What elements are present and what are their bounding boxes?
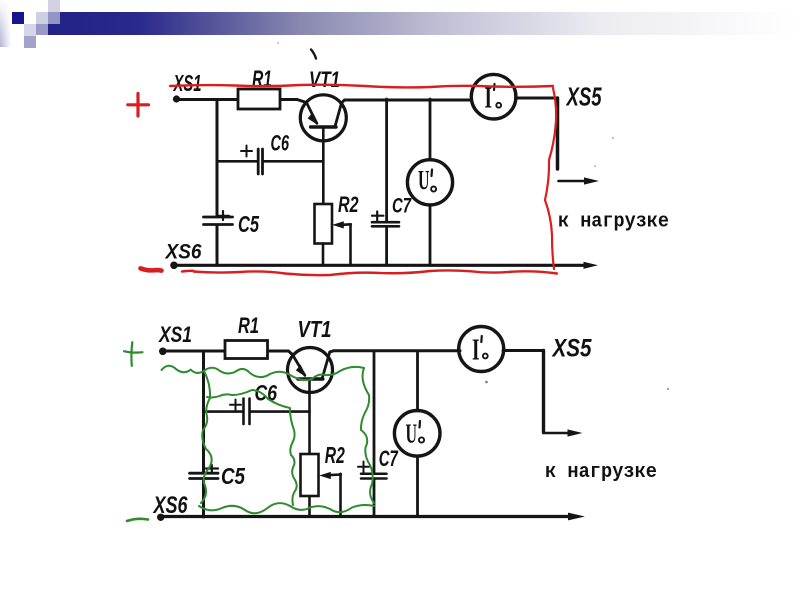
label I'o inside ammeter (top) [485, 79, 493, 114]
wiper arrow of R2 (top) [332, 221, 351, 228]
wire: bottom bus (bottom circuit) [161, 513, 586, 521]
red minus sign [141, 268, 162, 270]
label R1 (top) [252, 66, 272, 93]
wire: left branch vertical (top) [216, 100, 219, 266]
resistor R1 (bottom) [225, 341, 268, 359]
wire: wiper drop to bottom bus (top) [349, 224, 352, 265]
label I'o inside ammeter (bottom) [472, 332, 480, 367]
wire: output arrow to load (top circuit) [559, 177, 600, 184]
wire: C7 branch upper (top) [385, 99, 388, 221]
wire: base lead down from VT1 (bottom) [308, 379, 311, 455]
wire: top bus middle segment [342, 100, 472, 103]
label R2 (top) [338, 192, 359, 217]
label C7 (bottom) [379, 446, 399, 471]
paper specks [277, 42, 669, 390]
wire: top bus right segment to corner [516, 97, 558, 100]
green scribble bottom run [199, 503, 374, 513]
label XS1 (top) [172, 70, 201, 96]
label C5 (bottom) [221, 463, 246, 489]
svg-text:I: I [472, 332, 480, 367]
svg-text:C5: C5 [238, 211, 260, 237]
label к нагрузке (bottom) [545, 461, 657, 484]
label VT1 (bottom) [298, 316, 332, 342]
svg-text:XS5: XS5 [565, 82, 602, 112]
polarity + of C6 (bottom) [230, 400, 241, 411]
red plus sign [128, 94, 149, 117]
svg-text:XS5: XS5 [551, 335, 593, 363]
resistor R1 (top) [238, 89, 280, 109]
green plus sign [124, 342, 142, 366]
svg-text:R2: R2 [325, 442, 345, 468]
voltmeter U (bottom) [394, 411, 440, 457]
wire: voltmeter branch lower (bottom) [416, 456, 419, 517]
ammeter I (top) [471, 74, 516, 119]
svg-text:к нагрузке: к нагрузке [545, 461, 657, 484]
svg-text:XS6: XS6 [165, 241, 202, 264]
label XS6 (top) [165, 241, 202, 264]
red line below bottom bus [182, 270, 557, 275]
label к нагрузке (top) [558, 211, 669, 234]
label XS5 (bottom) [551, 335, 593, 363]
capacitor C7 (bottom) [361, 474, 387, 479]
svg-text:XS6: XS6 [152, 492, 188, 519]
wire: C6 link horizontal (top) [217, 160, 323, 163]
label XS6 (bottom) [152, 492, 188, 519]
label C6 (bottom) [255, 381, 278, 406]
wire: voltmeter branch lower (top) [429, 205, 432, 265]
label XS1 (bottom) [157, 322, 192, 347]
label C6 (top) [271, 131, 290, 156]
capacitor C7 (top) [372, 222, 399, 226]
svg-text:C7: C7 [392, 195, 412, 218]
decorative slide banner [0, 0, 13, 47]
label U'o inside voltmeter (bottom) [406, 418, 418, 448]
wire: top bus left segment (bottom circuit) [162, 351, 293, 355]
transistor VT1 (top) [300, 95, 346, 141]
capacitor C6 (bottom) [244, 399, 250, 425]
wire: wiper drop to bottom bus (bottom) [339, 474, 342, 517]
polarity + of C6 (top) [241, 146, 252, 157]
wire: output arrow to load (bottom circuit) [544, 429, 583, 436]
polarity + of C7 (bottom) [358, 462, 369, 473]
stray pen tick above VT1 [311, 50, 316, 59]
resistor R2 rheostat (top) [315, 204, 333, 244]
polarity + of C7 (top) [372, 212, 383, 221]
capacitor C5 (bottom) [190, 473, 218, 478]
polarity + of C5 (bottom) [206, 465, 218, 472]
wire: XS5 down lead (top circuit) [556, 98, 560, 169]
red line right side vertical [545, 88, 556, 269]
resistor R2 rheostat (bottom) [301, 454, 319, 496]
svg-text:U: U [418, 165, 430, 195]
svg-text:C5: C5 [221, 463, 246, 489]
terminal XS6 (bottom circuit) [157, 514, 164, 521]
wire: C7 branch upper (bottom) [373, 351, 376, 473]
ammeter I (bottom) [459, 327, 504, 372]
svg-text:R1: R1 [252, 66, 272, 93]
terminal XS1 (top circuit) [173, 95, 180, 102]
wire: top bus right segment (bottom circuit) [503, 349, 544, 352]
wire: top bus left segment [177, 100, 307, 103]
voltmeter U (top) [407, 160, 452, 205]
wire: R2 bottom lead (bottom) [308, 496, 311, 517]
polarity + of C5 (top) [218, 211, 229, 220]
wire: R2 bottom lead (top) [322, 244, 325, 266]
wire: bottom bus (top circuit) [174, 262, 598, 269]
wire: voltmeter branch upper (bottom) [416, 351, 419, 411]
svg-text:R1: R1 [238, 313, 259, 338]
wire: C7 branch lower (bottom) [373, 480, 376, 517]
wire: base lead down from VT1 (top) [322, 127, 325, 204]
wire: C7 branch lower (top) [385, 228, 388, 265]
wire: top bus middle segment (bottom circuit) [330, 351, 460, 352]
red line above top bus [170, 85, 553, 88]
svg-text:VT1: VT1 [298, 316, 332, 342]
wire: C6 link horizontal (bottom) [204, 410, 310, 413]
terminal XS6 (top circuit) [170, 262, 178, 270]
wiper arrow of R2 (bottom) [319, 472, 341, 479]
label C7 (top) [392, 195, 412, 218]
svg-text:к нагрузке: к нагрузке [558, 211, 669, 234]
label R2 (bottom) [325, 442, 345, 468]
green scribble top run [162, 366, 365, 380]
transistor VT1 (bottom) [288, 348, 333, 393]
green scribble middle descent [290, 409, 297, 505]
svg-text:VT1: VT1 [309, 67, 340, 92]
green minus sign [127, 519, 148, 521]
wire: voltmeter branch upper (top) [429, 99, 432, 160]
green scribble C6 divider [207, 390, 290, 408]
label C5 (top) [238, 211, 260, 237]
svg-text:C7: C7 [379, 446, 399, 471]
green scribble left ascent [201, 371, 212, 503]
green scribble right descent [361, 368, 374, 503]
capacitor C5 (top) [204, 217, 233, 225]
capacitor C6 (top) [258, 149, 262, 174]
label R1 (bottom) [238, 313, 259, 338]
wire: left branch vertical (bottom) [202, 351, 205, 517]
wire: XS5 down lead (bottom circuit) [542, 351, 545, 433]
svg-text:C6: C6 [271, 131, 290, 156]
svg-text:XS1: XS1 [172, 70, 201, 96]
svg-text:R2: R2 [338, 192, 359, 217]
svg-text:XS1: XS1 [157, 322, 192, 347]
label XS5 (top) [565, 82, 602, 112]
svg-text:U: U [406, 418, 418, 448]
terminal XS1 (bottom circuit) [159, 348, 167, 356]
label VT1 (top) [309, 67, 340, 92]
svg-text:I: I [485, 79, 493, 114]
label U'o inside voltmeter (top) [418, 165, 430, 195]
